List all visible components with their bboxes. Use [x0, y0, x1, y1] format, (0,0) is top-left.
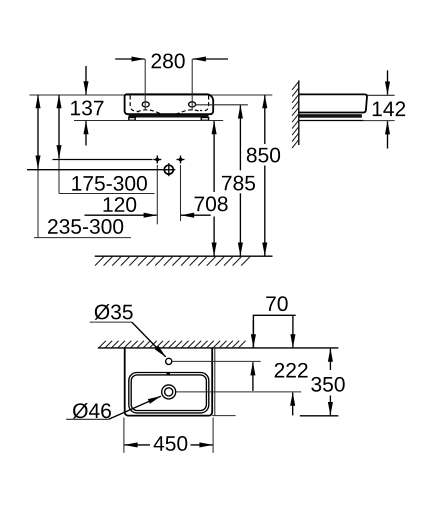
wire 142 top arrow	[387, 70, 389, 94]
value 120	[104, 197, 137, 212]
node supply point right	[177, 156, 185, 164]
wire left foot front	[129, 118, 135, 121]
value 137	[71, 101, 103, 116]
node supply point left	[153, 156, 161, 164]
wire 708 dimension line upper arrow	[213, 121, 215, 192]
wire 280 extension line left	[144, 59, 146, 111]
wire 175-300 vertical dimension arrows	[58, 95, 60, 110]
hole drain 46 inner	[165, 388, 173, 396]
wire drain line	[27, 169, 162, 171]
wire 142 extension line top	[368, 94, 395, 96]
wire 785 dimension line lower arrow	[239, 193, 241, 255]
node wall line side view	[298, 80, 300, 145]
node wall line plan view	[98, 347, 339, 349]
value 708	[195, 196, 228, 211]
wire basin front edge extension plan	[212, 415, 235, 417]
wire right foot front	[201, 118, 208, 121]
wire plinth band front	[129, 114, 209, 117]
wire 850 dimension line lower arrow	[264, 166, 266, 256]
wire 70 bracket line	[253, 315, 295, 348]
wire plinth band side	[299, 114, 362, 118]
wire 142 bottom arrow	[387, 121, 389, 148]
wire 708 dimension line lower arrow	[213, 217, 215, 256]
node overflow notch	[167, 372, 170, 375]
wire 850 dimension line upper arrow	[264, 95, 266, 144]
wire 280 dimension arrow left	[115, 58, 145, 60]
wire 120 dimension arrow left-pointing	[181, 214, 211, 216]
wire 222 lower arrow	[292, 393, 294, 416]
value 450	[154, 436, 188, 451]
ground floor hatching	[95, 257, 250, 266]
wire basin front outline	[125, 94, 214, 114]
wire 450 dimension arrow left	[124, 444, 150, 446]
wire 450 dimension arrow right	[191, 444, 213, 446]
wire 280 dimension arrow right	[193, 58, 228, 60]
wire 222 upper arrow	[292, 315, 294, 347]
wire 450 extension line right	[212, 418, 214, 453]
value 850	[247, 148, 280, 163]
value 235-300	[48, 219, 123, 234]
wire 235-300 vertical dimension arrows	[37, 95, 39, 110]
wire basin plan outline	[125, 348, 213, 416]
wire 137 bottom arrow	[85, 121, 87, 146]
value 70	[266, 296, 287, 311]
node 350 bottom reference tick	[300, 415, 339, 417]
label leader O46	[66, 418, 109, 420]
wire 350 lower arrow	[329, 396, 331, 416]
wire 175-300 leader	[58, 158, 60, 193]
wire 350 upper arrow	[329, 349, 331, 370]
value 350	[311, 377, 344, 392]
hole mounting left front	[142, 102, 149, 107]
node tap centre reference line	[172, 360, 261, 362]
node mounting holes reference line (785 level)	[196, 104, 248, 106]
wire bowl outer outline plan	[129, 373, 209, 413]
value 785	[222, 176, 255, 191]
wire basin front inner bowl dashed left	[130, 96, 139, 112]
wire basin side profile	[299, 94, 367, 112]
wire 70 upper arrow	[252, 320, 254, 347]
wire basin front inner bowl dashed bottom	[137, 110, 201, 115]
wire bowl inner outline plan	[131, 375, 206, 411]
node basin bottom reference line (708 level)	[74, 120, 223, 122]
wire water supply line	[53, 159, 153, 161]
wire 450 extension line left	[123, 418, 125, 453]
wire 785 dimension line upper arrow	[239, 105, 241, 170]
hole drain 46 outer	[162, 385, 176, 399]
node drain centre reference line	[176, 391, 301, 393]
node floor line	[95, 255, 273, 257]
ground wall hatching plan view	[99, 341, 246, 348]
ground wall hatching side view	[292, 82, 299, 149]
label leader O35	[90, 321, 132, 323]
wire 280 extension line right	[191, 59, 193, 111]
hole tap 35 plan	[166, 358, 172, 364]
value 175-300	[72, 176, 147, 191]
wire 142 extension line bottom	[362, 120, 395, 122]
wire 120 extension line right	[180, 165, 182, 221]
hole mounting right front	[189, 102, 196, 107]
wire basin plan right rim line	[214, 348, 216, 416]
wire 120 extension line left	[156, 165, 158, 224]
wire basin front inner bowl dashed right	[200, 96, 209, 112]
wire 70 lower arrow	[252, 362, 254, 391]
value 280	[152, 54, 185, 69]
value 142	[373, 101, 405, 116]
node top reference line (850 rim level)	[30, 94, 273, 96]
value 222	[275, 363, 308, 378]
value O46	[73, 403, 111, 419]
wire 120 dimension arrow right-pointing	[85, 214, 157, 216]
wire bottom plate side	[299, 120, 364, 122]
wire 235-300 leader	[37, 169, 39, 238]
wire 137 top arrow	[85, 66, 87, 94]
value O35	[95, 304, 133, 320]
node drain point	[162, 163, 175, 176]
